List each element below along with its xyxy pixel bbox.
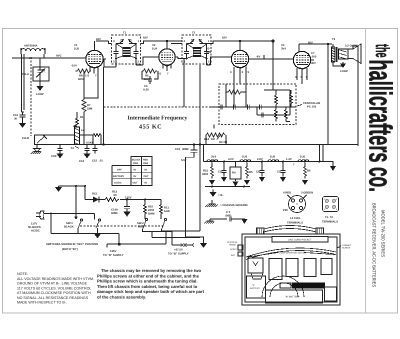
svg-text:40MF: 40MF (182, 148, 189, 151)
svg-text:IN: IN (145, 169, 148, 172)
wire antenna right down to AVC node (43, 54, 45, 58)
svg-text:TERMINALS: TERMINALS (322, 221, 338, 224)
ground C5 (280, 177, 286, 182)
svg-text:L2: L2 (81, 129, 85, 132)
svg-text:1U5: 1U5 (270, 156, 276, 159)
line cord pocket (272, 237, 328, 243)
tube filament 1U5 b (293, 156, 309, 167)
svg-text:.005: .005 (311, 56, 317, 59)
svg-text:BLACK: BLACK (64, 226, 74, 229)
svg-text:4.2V: 4.2V (228, 158, 234, 161)
svg-text:"A": "A" (252, 284, 255, 287)
model line 2 (372, 203, 377, 287)
svg-text:VERTICAL: VERTICAL (227, 241, 238, 244)
label 62V right (222, 37, 227, 40)
label CENTRALAB PC 103 (297, 102, 320, 109)
svg-text:+67.5V: +67.5V (174, 249, 183, 252)
svg-text:.01: .01 (99, 160, 103, 163)
output transformer T3 (332, 38, 344, 66)
svg-text:820K: 820K (78, 78, 85, 81)
wire PC103 mid row (210, 106, 296, 108)
svg-text:damage stick loop and speaker: damage stick loop and speaker both of wh… (97, 289, 205, 294)
svg-text:6.8K: 6.8K (164, 210, 170, 213)
svg-text:NOTE:: NOTE: (17, 272, 28, 276)
capacitor PC103 d (262, 113, 264, 118)
arrow SW1 feed (74, 185, 77, 220)
junction x127 (126, 199, 128, 201)
legend outside foil (205, 211, 248, 224)
svg-text:T3: T3 (332, 38, 336, 41)
wire x103 vertical (103, 67, 105, 145)
svg-text:LINE CORD POCKET: LINE CORD POCKET (288, 239, 312, 242)
wire R8-R7 verticals (84, 68, 98, 145)
chassis handle (257, 226, 325, 235)
svg-text:455 KC: 455 KC (139, 124, 162, 131)
svg-text:AC/DC: AC/DC (31, 230, 40, 233)
junction plug drop (50, 213, 52, 215)
svg-text:4.5KC: 4.5KC (86, 142, 94, 145)
svg-text:PC 103: PC 103 (307, 106, 317, 109)
resistor PC103 right edge v3 (290, 90, 293, 107)
tube filament 1U4 (240, 156, 251, 162)
tube V1 (86, 41, 106, 68)
svg-text:C19: C19 (175, 148, 181, 151)
svg-text:1U5: 1U5 (300, 156, 306, 159)
chassis bottom right box (325, 287, 337, 301)
junction at x328 (327, 43, 329, 45)
svg-text:BROADCAST RECEIVER, AC-DC BATT: BROADCAST RECEIVER, AC-DC BATTERIES (372, 203, 377, 287)
svg-text:C1C: C1C (218, 171, 224, 174)
svg-text:ANTENNA: ANTENNA (24, 45, 37, 48)
label 1.4V (286, 158, 292, 161)
svg-text:4 RED: 4 RED (283, 192, 291, 195)
svg-text:AT MAXIMUM CLOCKWISE POSITION: AT MAXIMUM CLOCKWISE POSITION WITH (17, 291, 91, 295)
svg-text:60MF: 60MF (111, 212, 118, 215)
svg-text:135V: 135V (125, 197, 132, 200)
svg-text:5.1K: 5.1K (144, 78, 150, 81)
wire 62V bus top (96, 41, 273, 44)
svg-text:3 GREEN: 3 GREEN (301, 192, 313, 195)
wire V2 plate to T2 (178, 57, 187, 65)
brand word the (371, 44, 392, 58)
resistor R7 (82, 98, 93, 113)
resistor 4.5K osc (86, 134, 101, 145)
chassis label right (337, 244, 352, 250)
brand word co (363, 167, 399, 192)
svg-text:A.05: A.05 (143, 89, 149, 92)
svg-text:GROUND OF VTVM AT B-. LINE VOL: GROUND OF VTVM AT B-. LINE VOLTAGE (17, 282, 88, 286)
chassis tube shield box (248, 258, 263, 279)
svg-text:R6: R6 (307, 170, 311, 173)
ground C1C (221, 177, 227, 182)
capacitor inside PC103 a (218, 105, 223, 110)
label AVC (56, 55, 62, 58)
wire T2 to V3 (171, 44, 231, 66)
svg-text:co.: co. (363, 167, 399, 192)
svg-text:BATTERY: BATTERY (113, 175, 124, 178)
svg-text:T1: T1 (123, 32, 127, 35)
junction x319 filament (319, 161, 321, 163)
ground C8 (259, 177, 265, 182)
oscillator coil L2 (71, 127, 85, 150)
label +62V top (96, 38, 101, 41)
chassis removal paragraph (97, 268, 205, 300)
svg-text:= B-: = B- (218, 194, 223, 197)
speaker (339, 44, 362, 64)
capacitor C1C (218, 161, 227, 177)
resistor R10 (144, 200, 156, 220)
svg-text:R9 1M: R9 1M (219, 141, 228, 144)
svg-text:R1: R1 (80, 116, 84, 119)
resistor R13 (104, 191, 119, 202)
chassis tube 4 (321, 259, 332, 275)
resistor R15 (202, 161, 214, 179)
wire x184 vertical (183, 65, 185, 107)
label 135V (125, 197, 132, 200)
capacitor C19 (175, 145, 198, 163)
svg-text:Phillips screws at either end: Phillips screws at either end of the cab… (97, 273, 200, 278)
capacitor C13 (79, 145, 91, 164)
wire R13 to switches (120, 199, 161, 201)
junction supply row (118, 243, 121, 246)
loop on back cover (246, 248, 336, 260)
rectifier RC1 (85, 193, 104, 203)
wire x328 B+ vertical (327, 44, 329, 145)
wire left verticals from antenna (22, 111, 25, 113)
svg-text:3V4: 3V4 (211, 156, 216, 159)
svg-text:L2 COIL: L2 COIL (290, 217, 301, 220)
svg-text:C13: C13 (79, 160, 85, 163)
wire 62V bus drop at x273 (272, 40, 274, 84)
svg-text:53M: 53M (87, 108, 93, 111)
svg-text:PIN: PIN (283, 209, 288, 212)
svg-text:SW2: SW2 (143, 162, 149, 165)
svg-text:hallicrafters: hallicrafters (363, 60, 399, 163)
wire B minus to rectifier (59, 186, 86, 200)
svg-text:R4: R4 (232, 172, 236, 175)
label V4 3V4 (281, 44, 286, 51)
svg-text:1U4: 1U4 (242, 156, 248, 159)
svg-text:BAT: BAT (231, 254, 236, 257)
svg-text:5.5v: 5.5v (181, 159, 187, 162)
svg-text:TO "B" SUPPLY: TO "B" SUPPLY (103, 254, 124, 257)
switch SW-1 (64, 219, 101, 234)
svg-text:LOOP: LOOP (340, 70, 348, 73)
wire plug cord bottom (51, 214, 119, 245)
svg-text:CO-B: CO-B (22, 137, 29, 140)
tube filament 3V4 (207, 156, 218, 162)
wire C19 foil return (186, 155, 204, 243)
svg-text:AC/DC: AC/DC (230, 248, 237, 251)
chassis IF can 1 (269, 259, 282, 280)
legend B- ground (210, 190, 224, 198)
chassis tuning capacitor dark (280, 283, 325, 289)
svg-text:T2: T2 (192, 32, 196, 35)
svg-text:50: 50 (114, 194, 118, 197)
ground SW1 arm (94, 234, 101, 239)
V3 pins below (230, 67, 250, 85)
chassis speaker arcs (262, 276, 304, 297)
wire T1 sec to V2 (136, 57, 159, 65)
oscillator box CO-B (22, 135, 93, 145)
chassis rear view drawing (242, 234, 340, 305)
dashed switch link (80, 225, 165, 227)
resistor inside PC103 top (227, 90, 242, 94)
junction 85 186 (84, 185, 86, 187)
svg-text:IN: IN (134, 175, 137, 178)
svg-text:"B" BATTERY: "B" BATTERY (285, 296, 300, 299)
T1 T2 terminals drawing (322, 197, 339, 224)
label 67.5V B supply (168, 249, 189, 256)
ground speaker (340, 62, 348, 73)
filament bus (204, 145, 321, 162)
fusible link symbol (181, 244, 187, 247)
potentiometer R14 volume (204, 133, 225, 141)
svg-text:T4: T4 (71, 147, 75, 150)
svg-text:SW1: SW1 (133, 162, 139, 165)
svg-text:R5: R5 (249, 171, 253, 174)
label -10V (71, 65, 77, 68)
svg-text:OHM: OHM (148, 213, 155, 216)
wire V3 grid to V4 (252, 55, 293, 59)
svg-text:135V: 135V (110, 250, 117, 253)
svg-text:(MF): (MF) (226, 215, 232, 218)
svg-text:LOOP: LOOP (36, 93, 44, 96)
ground 67V supply (200, 243, 207, 248)
svg-text:ALL VOLTAGE READINGS MADE WITH: ALL VOLTAGE READINGS MADE WITH VTVM. (17, 277, 94, 281)
svg-text:MADE WITH RESPECT TO B-.: MADE WITH RESPECT TO B-. (17, 301, 67, 305)
svg-text:The chassis may be removed by: The chassis may be removed by removing t… (101, 268, 202, 273)
svg-text:T1, T2: T1, T2 (325, 216, 333, 219)
ground R16 (302, 180, 308, 185)
resistor PC103 right edge v4 (285, 107, 291, 122)
legend chassis ground (206, 200, 248, 207)
junction bus x103 (102, 143, 104, 145)
svg-text:62V: 62V (96, 38, 101, 41)
svg-text:MODEL TW-200 SERIES: MODEL TW-200 SERIES (381, 210, 386, 257)
wire R14 ends to bus (206, 125, 226, 145)
switch SW-2 (137, 218, 167, 244)
svg-text:R14: R14 (204, 138, 210, 141)
svg-text:NO SIGNAL. ALL RESISTANCE READ: NO SIGNAL. ALL RESISTANCE READINGS (17, 296, 89, 300)
V2 pins below (157, 65, 171, 76)
svg-text:C1B: C1B (51, 155, 57, 158)
svg-text:62V: 62V (222, 37, 227, 40)
svg-text:IN: IN (134, 169, 137, 172)
label 62V mid (143, 37, 148, 40)
IF transformer T1 (112, 32, 141, 65)
svg-text:SWITCHES SHOWN IN "OFF" POSITI: SWITCHES SHOWN IN "OFF" POSITION (46, 243, 98, 246)
dashed gang link (30, 57, 32, 136)
svg-text:Phillips screw which is undern: Phillips screw which is underneath the t… (97, 279, 198, 284)
wire V1 plate to T1 (103, 59, 116, 68)
junction V2 top (166, 40, 168, 42)
capacitor inside PC103 e (248, 105, 250, 110)
tube filament 1U5 a (268, 156, 279, 162)
wire AVC line (12, 57, 86, 59)
svg-text:1U4: 1U4 (152, 48, 158, 51)
wire B minus to SW1 arm (75, 186, 77, 217)
wire supply row 135V (107, 244, 166, 248)
ground box (233, 182, 239, 187)
ground R5 (244, 180, 250, 185)
wire V3 pins into PC103 (234, 84, 246, 107)
resistor PC103 right v2 (275, 107, 278, 122)
V4 pins below (295, 68, 308, 84)
wire speaker top to right edge (353, 46, 358, 54)
chassis knobs left (227, 241, 243, 257)
resistor R5 (246, 161, 253, 179)
svg-text:1U5: 1U5 (74, 48, 80, 51)
label Intermediate Frequency (128, 115, 188, 131)
wire top bus into PC103 (264, 84, 290, 107)
resistor PC103 right v1 (275, 90, 278, 107)
junction top bus at T1 (0, 0, 1, 1)
ground B minus power (55, 186, 62, 192)
junction bus x200 (199, 143, 201, 145)
svg-text:of the chassis assembly.: of the chassis assembly. (97, 295, 146, 300)
junction dot ground b (243, 186, 245, 188)
wire x200 vertical (164, 65, 200, 231)
model line 1 (381, 210, 386, 257)
tube V4 (293, 44, 314, 69)
capacitor C1B (51, 145, 64, 159)
wire B plus return (152, 232, 200, 238)
label 135V B supply (103, 250, 124, 257)
wire antenna left leads down (22, 54, 25, 112)
label -6V (256, 56, 260, 59)
svg-text:BATTERY: BATTERY (250, 287, 260, 290)
chassis IF can 2 (286, 259, 298, 277)
svg-text:AC/DC: AC/DC (114, 182, 122, 185)
label R9 1M (219, 141, 228, 144)
main bus B- horizontal (35, 144, 359, 146)
label V2 1U4 (152, 44, 158, 51)
tube V2 (159, 41, 178, 66)
svg-text:30: 30 (14, 118, 18, 121)
antenna loop L1 (21, 48, 45, 54)
svg-text:the: the (371, 44, 392, 58)
power plug (28, 211, 44, 233)
capacitor C5 (277, 161, 286, 177)
svg-text:= CHASSIS GROUND: = CHASSIS GROUND (220, 204, 248, 207)
svg-text:1U5: 1U5 (206, 51, 212, 54)
wire PC103 inner top (226, 84, 246, 107)
resistor R6 (142, 69, 157, 81)
label L1 (29, 57, 33, 60)
capacitor inside PC103 c (260, 105, 262, 110)
tube V3 (231, 41, 252, 68)
svg-text:CO-A: CO-A (22, 73, 29, 76)
printed circuit dashed box PC103 (219, 84, 296, 125)
chassis B battery box (266, 290, 323, 303)
note text block (17, 272, 94, 305)
svg-text:C5: C5 (277, 171, 281, 174)
label C7 .005 (311, 52, 317, 59)
capacitor C8 (256, 161, 265, 177)
svg-text:Then lift chassis from cabinet: Then lift chassis from cabinet, being ca… (97, 284, 198, 289)
antenna label (24, 45, 37, 48)
svg-text:HINGE: HINGE (229, 244, 236, 247)
svg-text:OFF: OFF (117, 169, 122, 172)
loop terminals drawing (283, 192, 313, 225)
V1 pins below (85, 67, 98, 78)
box component below bus (230, 162, 241, 182)
wire 67V supply row (147, 232, 194, 247)
wire plug cord top (44, 214, 95, 220)
svg-text:117 VOLTS 60 CYCLES. VOLUME CO: 117 VOLTS 60 CYCLES. VOLUME CONTROL (17, 286, 91, 290)
svg-text:40V: 40V (311, 62, 316, 65)
brand word hallicrafters (363, 60, 399, 163)
junction bus x191 (193, 143, 195, 145)
label 40V (311, 62, 316, 65)
svg-text:AVC: AVC (56, 55, 62, 58)
capacitor CO-A tuning (22, 58, 49, 84)
svg-text:-10V: -10V (71, 65, 77, 68)
svg-text:1-5: 1-5 (85, 75, 89, 78)
svg-text:TO "B" SUPPLY: TO "B" SUPPLY (168, 253, 189, 256)
wire R8 to pot (76, 70, 85, 72)
label V3 1U5 (206, 48, 212, 55)
svg-text:RED: RED (138, 226, 144, 229)
capacitor C15 (92, 145, 103, 163)
svg-text:1.4V: 1.4V (286, 158, 292, 161)
junction x145 (144, 199, 146, 201)
capacitor C14A (111, 200, 130, 216)
junction dot ground a (211, 186, 213, 188)
label 4.2V (228, 158, 234, 161)
ground C16 (19, 120, 26, 128)
svg-text:C8: C8 (256, 171, 260, 174)
wire PC103 lower row (257, 107, 290, 115)
ground filament end (330, 166, 336, 171)
capacitor inside PC103 b (234, 105, 236, 110)
junction V3 top (239, 40, 241, 42)
svg-text:TERMINALS: TERMINALS (287, 222, 303, 225)
svg-text:RC1: RC1 (92, 193, 98, 196)
resistor R11 (160, 200, 170, 220)
wire V4 plate to top bus (299, 43, 332, 45)
resistor R16 (304, 161, 311, 179)
svg-text:-6V: -6V (256, 56, 260, 59)
svg-text:SCREW: SCREW (342, 247, 351, 250)
capacitor C6 (142, 71, 158, 92)
label 2.8V (257, 158, 263, 161)
resistor R17 above L2 (74, 112, 84, 126)
chassis battery box (247, 276, 266, 298)
dashed IF boundary (104, 106, 220, 108)
ground R15 (209, 180, 215, 185)
svg-text:3300: 3300 (202, 173, 209, 176)
ground C14A (124, 212, 131, 217)
wire B+ double vertical right (320, 145, 324, 162)
svg-text:Intermediate Frequency: Intermediate Frequency (128, 115, 188, 122)
svg-text:62V: 62V (143, 37, 148, 40)
label switches note (46, 243, 98, 251)
wire filament end to ground (320, 162, 333, 167)
chassis tube 3 (304, 259, 316, 277)
wire right edge vertical (357, 54, 359, 146)
label 60V (308, 42, 313, 45)
svg-text:OUT: OUT (144, 175, 150, 178)
svg-text:LOOP ON BACK COVER: LOOP ON BACK COVER (279, 252, 306, 255)
label V1 1U5 (74, 44, 80, 51)
svg-text:3V4: 3V4 (281, 48, 286, 51)
svg-text:(BOTH "IN"): (BOTH "IN") (62, 248, 78, 251)
ground below CO-B (31, 145, 41, 155)
ground below CO-A (36, 84, 44, 96)
switch table (112, 157, 152, 186)
